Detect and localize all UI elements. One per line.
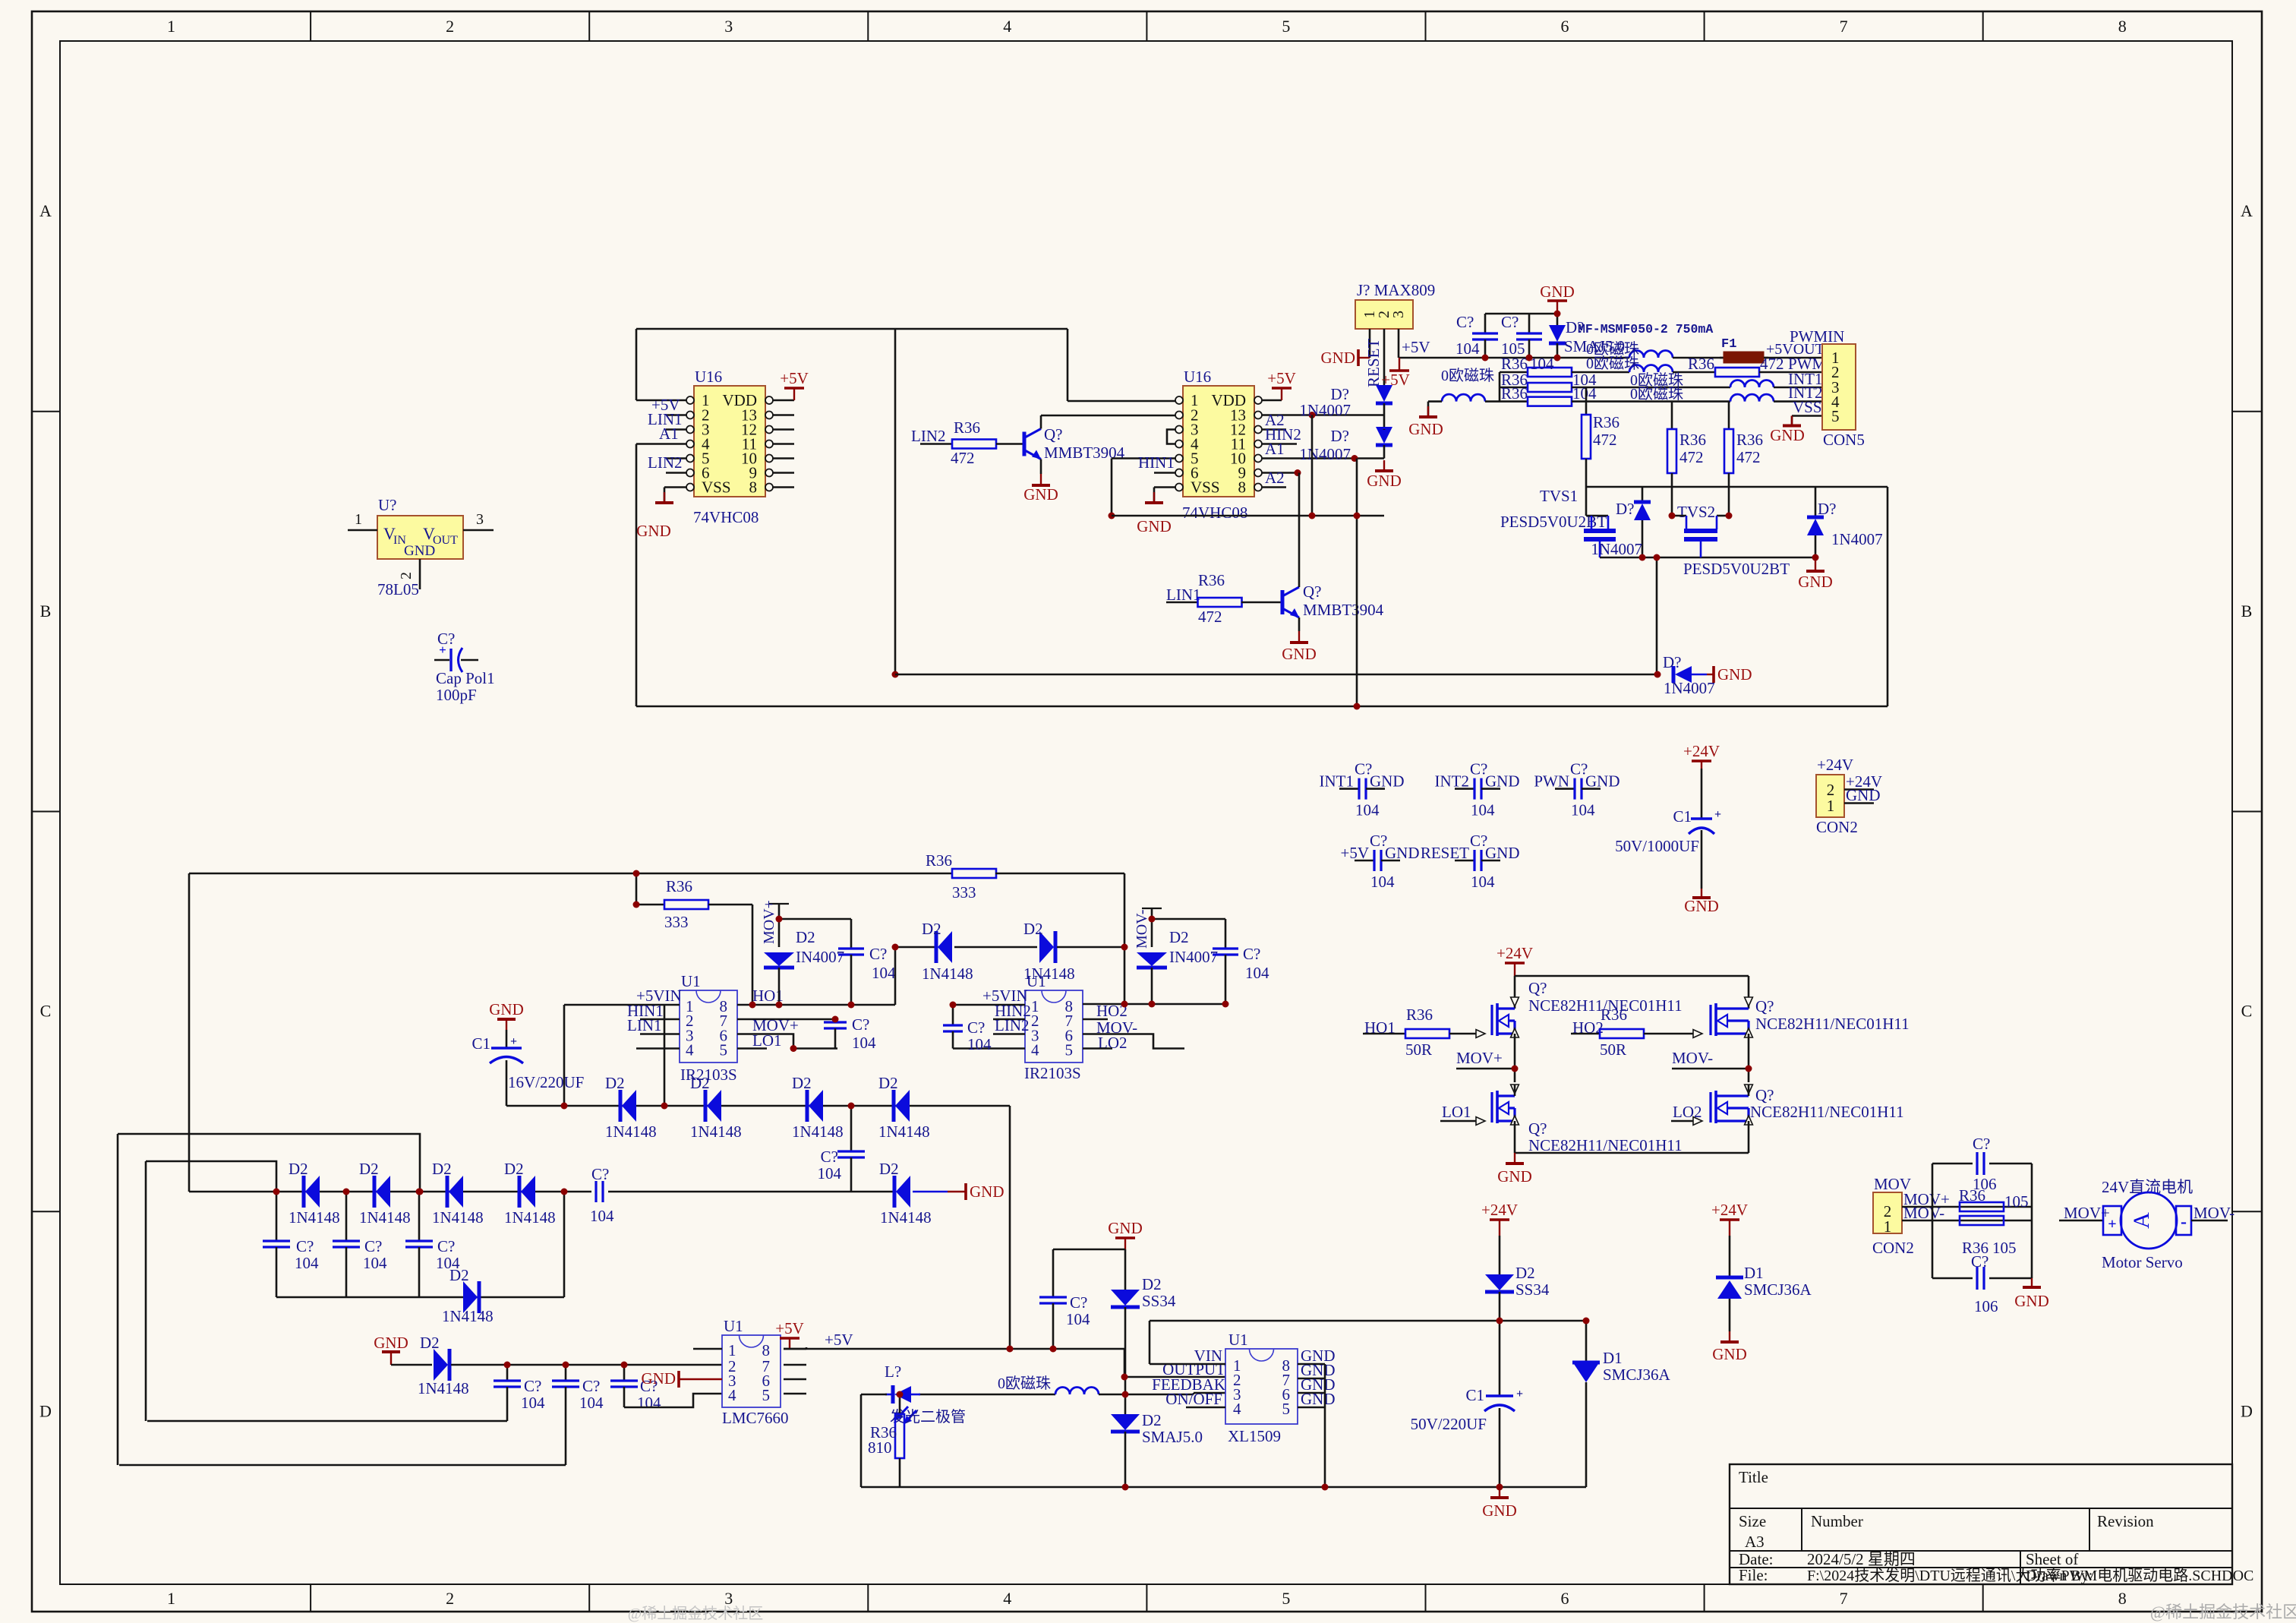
svg-text:SMAJ5.0: SMAJ5.0 (1142, 1428, 1203, 1446)
svg-text:74VHC08: 74VHC08 (693, 508, 758, 526)
wire vertical 875 (pump) (664, 1005, 666, 1106)
power +5V at U16 VDD (772, 399, 794, 402)
cap beta C? 104 below row F (345, 1192, 348, 1241)
svg-text:R36: R36 (1679, 431, 1706, 449)
ferrite bead row INT2 (1730, 394, 1774, 402)
net HIN2 stub pin11 (1261, 443, 1297, 445)
net HIN2 stub (993, 1018, 1025, 1021)
svg-text:RESET: RESET (1421, 844, 1469, 862)
power +24V H-bridge (1514, 963, 1515, 976)
svg-text:1N4007: 1N4007 (1299, 445, 1351, 463)
svg-text:D2: D2 (796, 928, 815, 946)
wire top loop U16-1 (636, 328, 1068, 330)
svg-text:8: 8 (2118, 17, 2127, 36)
svg-text:0欧磁珠: 0欧磁珠 (1586, 355, 1639, 372)
svg-text:5: 5 (1831, 407, 1840, 425)
diode D2 1N4148 row F #5 (893, 1176, 897, 1208)
net LIN1 stub pin3 (640, 1033, 680, 1035)
svg-text:R36: R36 (926, 851, 952, 870)
svg-text:104: 104 (1572, 384, 1597, 403)
svg-text:104: 104 (1571, 801, 1595, 819)
svg-text:A1: A1 (1265, 440, 1285, 458)
IC U1 IR2103S (right) (1025, 990, 1083, 1063)
wire vertical 1481 +5V to OUTPUT (1124, 1349, 1126, 1377)
wire TVS header 641 (1586, 486, 1888, 488)
capacitor C? 104 LMC #1 (506, 1365, 509, 1381)
svg-text:105: 105 (2004, 1192, 2029, 1211)
stub U16 right (772, 457, 794, 459)
svg-text:D2: D2 (449, 1266, 469, 1284)
wire vertical 835 to R36 333 left (635, 873, 638, 905)
wire vertical 155 down (117, 1134, 119, 1465)
wire vertical 1330 rowE to +5V row (1009, 1106, 1011, 1347)
svg-text:1N4148: 1N4148 (359, 1208, 411, 1227)
svg-text:GND: GND (1408, 420, 1443, 438)
svg-text:104: 104 (521, 1394, 545, 1412)
svg-text:78L05: 78L05 (377, 580, 419, 598)
diode D2 SS34 (catch) (1124, 1249, 1127, 1290)
svg-text:106: 106 (1973, 1175, 1997, 1193)
MOSFET Q? NCE82H11/NEC01H11 (top-right) (1748, 976, 1750, 1009)
diode D2 1N4148 row F #1 (302, 1176, 306, 1208)
wire pin7 row (737, 1018, 837, 1021)
svg-text:A3: A3 (1745, 1533, 1765, 1551)
svg-text:1N4148: 1N4148 (289, 1208, 340, 1227)
power +24V (buck input) (1499, 1220, 1500, 1236)
svg-text:VIN: VIN (1194, 1347, 1222, 1365)
svg-text:D2: D2 (359, 1160, 379, 1178)
net LIN2 stub pin6 U16 (666, 472, 687, 474)
wire row G (276, 1296, 564, 1299)
svg-text:1N4148: 1N4148 (880, 1208, 932, 1227)
stub pin5 right (1083, 1047, 1112, 1050)
svg-text:D?: D? (1331, 427, 1350, 445)
svg-text:D2: D2 (1142, 1275, 1162, 1293)
ground below reset diodes (1383, 460, 1385, 471)
net HIN1 stub pin2 (640, 1018, 680, 1021)
wire pin5 U16-2 (1112, 457, 1176, 459)
capacitor C? 104 (bootstrap left) (850, 919, 853, 949)
svg-text:CON2: CON2 (1872, 1239, 1914, 1257)
wire vertical U16-1 right 1179 (894, 329, 897, 674)
svg-text:U1: U1 (681, 972, 701, 990)
svg-text:C?: C? (1070, 1293, 1087, 1312)
svg-text:1: 1 (355, 511, 362, 528)
svg-text:Motor Servo: Motor Servo (2102, 1253, 2183, 1271)
svg-text:Q?: Q? (1755, 1086, 1774, 1104)
svg-text:A1: A1 (659, 425, 679, 443)
wire pin6 step (737, 1034, 837, 1049)
wire row B bottom bus (636, 706, 1888, 708)
svg-text:+24V: +24V (1481, 1201, 1518, 1219)
svg-text:OUT: OUT (433, 534, 458, 547)
svg-text:3: 3 (476, 511, 484, 528)
svg-text:+: + (2108, 1216, 2116, 1233)
svg-text:VSS: VSS (1793, 398, 1822, 416)
wire U16-2 pin1 from top loop (1068, 400, 1176, 403)
net MOV+ row (output) (1902, 1206, 2032, 1208)
diode D? 1N4007 to GND (row A) (1672, 666, 1676, 683)
svg-text:+: + (1714, 808, 1721, 821)
stub U16 right (772, 414, 794, 416)
vertical to bottom row A (1656, 557, 1658, 674)
svg-text:LIN1: LIN1 (1166, 586, 1201, 604)
capacitor C? 105 (5V rail) (1528, 314, 1531, 333)
svg-text:1N4148: 1N4148 (605, 1123, 657, 1141)
power +24V (right TVS) (1729, 1220, 1730, 1236)
diode D1 SMCJ36A (right TVS) (1716, 1276, 1743, 1280)
resistor R36 472 vertical #1 (1585, 387, 1588, 415)
IC U16 74VHC08 (left) (694, 386, 765, 497)
svg-text:5: 5 (720, 1041, 728, 1059)
ground snubber (2031, 1278, 2033, 1287)
wire bridge bottom rail (1515, 1152, 1749, 1154)
diode D2 1N4148 row F #3 (446, 1176, 449, 1208)
svg-text:发光二极管: 发光二极管 (890, 1408, 966, 1426)
IC U1 IR2103S (left) (680, 990, 737, 1063)
power +5V at U16-2 VDD (1261, 399, 1282, 402)
svg-text:3: 3 (1390, 311, 1407, 318)
resistor R36 472 vertical #3 (1728, 402, 1730, 429)
ground Q2 emitter (1298, 631, 1300, 643)
svg-text:5: 5 (1065, 1041, 1074, 1059)
svg-text:Q?: Q? (1528, 1119, 1547, 1138)
power +5V inverted port (1399, 358, 1400, 371)
IC U1 LMC7660 (722, 1335, 781, 1407)
svg-text:GND: GND (642, 1369, 676, 1388)
svg-text:MOV+: MOV+ (761, 900, 777, 944)
svg-text:GND: GND (1770, 426, 1805, 444)
diode D2 1N4148 (row D left) (935, 931, 938, 963)
net MOV+ wire (bridge) (1456, 1068, 1515, 1070)
svg-text:50V/1000UF: 50V/1000UF (1615, 837, 1699, 855)
svg-text:8: 8 (1238, 478, 1247, 497)
stub U16 right (772, 486, 794, 488)
svg-text:R36: R36 (1736, 431, 1763, 449)
svg-text:810: 810 (868, 1438, 892, 1457)
svg-text:104: 104 (1530, 355, 1554, 373)
capacitor C? 104 (bootstrap right) (1225, 919, 1227, 949)
ground VSS U16-2 (1154, 486, 1176, 488)
svg-text:104: 104 (1245, 964, 1269, 982)
svg-text:R36: R36 (1688, 355, 1714, 373)
svg-text:LO2: LO2 (1673, 1103, 1702, 1121)
svg-text:NCE82H11/NEC01H11: NCE82H11/NEC01H11 (1528, 1136, 1683, 1154)
net MOV- row (output) (1902, 1220, 2032, 1222)
svg-text:D2: D2 (879, 1160, 899, 1178)
svg-text:104: 104 (1066, 1310, 1090, 1328)
wire MAX809 pin1 (1369, 329, 1371, 358)
ground under right 1N4007 (1815, 559, 1816, 571)
svg-text:LIN2: LIN2 (648, 453, 683, 472)
svg-text:IN4007: IN4007 (796, 948, 844, 966)
wire vertical left 838 long (635, 444, 638, 707)
svg-text:LIN2: LIN2 (995, 1016, 1030, 1034)
cap gamma C? 104 below row F (418, 1192, 421, 1241)
svg-text:2024/5/2 星期四: 2024/5/2 星期四 (1807, 1550, 1916, 1568)
svg-text:+5V: +5V (1340, 844, 1369, 862)
svg-text:GND: GND (2014, 1292, 2049, 1310)
net LIN1 stub pin3 U16 (666, 428, 687, 431)
svg-text:1N4148: 1N4148 (878, 1123, 930, 1141)
svg-text:GND: GND (1798, 573, 1833, 591)
svg-text:333: 333 (952, 883, 976, 901)
svg-text:R36: R36 (1501, 384, 1528, 403)
svg-text:+5V: +5V (1267, 369, 1296, 387)
svg-text:1N4007: 1N4007 (1664, 679, 1715, 697)
svg-text:LO1: LO1 (752, 1031, 782, 1050)
diode D2 1N4148 feeding LMC (448, 1349, 452, 1381)
resistor R36 104 row INT1 (1500, 387, 1528, 389)
diode D1 SMCJ36A (near C1) (1585, 1321, 1588, 1361)
ferrite bead row PWM (1629, 365, 1673, 373)
svg-text:IR2103S: IR2103S (1024, 1064, 1081, 1082)
svg-text:104: 104 (967, 1035, 992, 1053)
svg-text:1: 1 (167, 17, 175, 36)
svg-text:Number: Number (1811, 1512, 1863, 1530)
MOSFET Q? NCE82H11/NEC01H11 (bottom-right) (1709, 1092, 1711, 1123)
wire corner to diode chain (894, 947, 897, 1005)
diode D? 1N4007 (reset lower) (1376, 444, 1392, 447)
svg-text:+5V: +5V (1402, 338, 1430, 356)
svg-text:3: 3 (724, 17, 733, 36)
svg-text:104: 104 (1471, 873, 1495, 891)
title block (1730, 1464, 2232, 1584)
svg-text:R36: R36 (1601, 1006, 1627, 1024)
svg-text:50R: 50R (1600, 1040, 1626, 1059)
svg-text:SS34: SS34 (1142, 1292, 1176, 1310)
svg-text:472: 472 (1593, 431, 1617, 449)
svg-text:GND: GND (1137, 517, 1172, 535)
svg-text:MOV-: MOV- (2193, 1204, 2234, 1222)
svg-text:+5V: +5V (775, 1319, 804, 1337)
svg-text:INT2: INT2 (1435, 772, 1470, 791)
svg-text:C: C (40, 1002, 52, 1021)
capacitor C? 104 RESET-GND (1455, 860, 1474, 862)
+5V rail to CON5 (1399, 357, 1629, 359)
wire CON2 pin1 GND (1844, 802, 1874, 804)
svg-text:1N4007: 1N4007 (1591, 540, 1642, 558)
svg-text:@稀土掘金技术社区: @稀土掘金技术社区 (628, 1605, 763, 1622)
svg-text:C1: C1 (1465, 1386, 1484, 1404)
svg-text:+24V: +24V (1817, 756, 1853, 774)
diode D? 1N4007 right column (1815, 487, 1817, 517)
wire top rail 1150 (189, 873, 953, 875)
svg-text:105: 105 (1992, 1239, 2017, 1257)
svg-text:F1: F1 (1721, 337, 1736, 352)
IC U16 74VHC08 (right) (1183, 386, 1254, 497)
svg-text:1N4148: 1N4148 (432, 1208, 484, 1227)
transistor Q? MMBT3904 (upper) (1023, 432, 1027, 456)
net A1 wire pin10 (1261, 457, 1384, 459)
IC U1 XL1509 (1225, 1349, 1298, 1424)
svg-text:104: 104 (1355, 801, 1380, 819)
svg-text:GND: GND (1712, 1345, 1747, 1363)
svg-text:C?: C? (591, 1165, 609, 1183)
svg-text:R36: R36 (1406, 1006, 1433, 1024)
resistor R36 104 row INT2 (1500, 400, 1528, 403)
svg-text:D2: D2 (504, 1160, 524, 1178)
svg-text:6: 6 (1561, 1589, 1569, 1608)
wire line 1529 (146, 1161, 276, 1192)
svg-text:GND: GND (1108, 1219, 1143, 1237)
svg-text:PESD5V0U2BT: PESD5V0U2BT (1683, 560, 1790, 578)
svg-text:J? MAX809: J? MAX809 (1357, 281, 1435, 299)
wire left loop xl1509 (861, 1394, 887, 1396)
svg-text:A2: A2 (1265, 469, 1285, 487)
svg-text:C?: C? (821, 1148, 838, 1166)
svg-text:C1: C1 (1673, 807, 1692, 826)
svg-text:D2: D2 (605, 1074, 625, 1092)
svg-text:Q?: Q? (1303, 583, 1322, 601)
diode D2 1N4148 row E #1 (619, 1090, 623, 1122)
svg-text:CON2: CON2 (1816, 818, 1858, 836)
svg-text:U?: U? (378, 496, 397, 514)
svg-text:1N4148: 1N4148 (792, 1123, 844, 1141)
svg-text:4: 4 (1003, 17, 1011, 36)
svg-text:D2: D2 (690, 1074, 710, 1092)
svg-text:104: 104 (579, 1394, 604, 1412)
wire vertical 1406 (1067, 329, 1069, 401)
svg-text:Title: Title (1739, 1468, 1768, 1486)
net +5VIN pin1 wire (564, 1004, 680, 1006)
svg-text:GND: GND (489, 1000, 524, 1018)
svg-text:1N4007: 1N4007 (1299, 401, 1351, 419)
svg-text:Q?: Q? (1044, 425, 1063, 444)
svg-text:MOV-: MOV- (1903, 1204, 1944, 1222)
net FEEDBAK row with bead (919, 1394, 1055, 1396)
diode D? 1N4007 near TVS1 (1642, 487, 1644, 502)
svg-text:74VHC08: 74VHC08 (1182, 504, 1247, 522)
svg-text:472: 472 (1736, 448, 1761, 466)
svg-text:0欧磁珠: 0欧磁珠 (1441, 367, 1494, 384)
stub pin5 (737, 1047, 767, 1050)
svg-text:File:: File: (1739, 1566, 1768, 1584)
capacitor C? 106 top (1973, 1154, 1989, 1174)
capacitor C? 104 (xl gnd) (1052, 1249, 1055, 1297)
svg-text:C1: C1 (471, 1034, 490, 1053)
net A2 stub pin8 (1261, 486, 1286, 488)
svg-text:5: 5 (1282, 1400, 1291, 1418)
svg-text:50R: 50R (1405, 1040, 1432, 1059)
svg-text:104: 104 (590, 1207, 614, 1225)
ground bottom row xl (1499, 1487, 1500, 1498)
svg-text:U1: U1 (1228, 1331, 1248, 1349)
svg-text:+5V: +5V (1381, 371, 1410, 389)
svg-text:104: 104 (637, 1394, 661, 1412)
stub pin5 U16 (666, 457, 687, 459)
XL1509 right GND pins (1298, 1363, 1325, 1366)
svg-text:8: 8 (749, 478, 758, 497)
capacitor C? 104 INT1-GND (1339, 788, 1359, 790)
svg-text:472: 472 (1679, 448, 1704, 466)
svg-text:D2: D2 (432, 1160, 452, 1178)
resistor R36 106 (MOV+) (1960, 1202, 2004, 1211)
wire pin9 row (1261, 472, 1298, 474)
svg-text:333: 333 (664, 913, 689, 931)
wire vertical 1514 to +24 row (1149, 1321, 1151, 1364)
svg-text:HIN1: HIN1 (1138, 453, 1175, 472)
resistor R36 472 vertical #2 (1671, 402, 1673, 429)
svg-text:D: D (2241, 1401, 2253, 1420)
wire row F (189, 1191, 894, 1193)
svg-text:Cap Pol1: Cap Pol1 (436, 669, 495, 687)
svg-text:RESET: RESET (1364, 339, 1383, 387)
transistor Q? MMBT3904 (lower) (1281, 590, 1285, 614)
svg-text:D?: D? (1616, 500, 1635, 518)
wire line 1493 (118, 1134, 420, 1192)
svg-text:+: + (510, 1035, 517, 1048)
wire vertical 1481 (1124, 873, 1126, 1004)
svg-text:TVS2: TVS2 (1677, 503, 1715, 521)
wire VIN row (1150, 1363, 1225, 1366)
wire pin8 row right (737, 1004, 895, 1006)
capacitor C? 104 LMC #3 (623, 1365, 626, 1381)
capacitor C1 50V/1000UF (1701, 761, 1702, 769)
svg-text:5: 5 (762, 1386, 771, 1404)
wire pin4 row (right) (953, 1047, 1025, 1050)
resistor R36 472 row PWM (1715, 368, 1759, 377)
wire collector Q1 to U16 pin2 (1041, 415, 1179, 417)
wire gnd header (1485, 313, 1557, 315)
svg-text:C?: C? (524, 1377, 541, 1395)
wire vertical 192 down (145, 1161, 147, 1421)
wire left junction of R36 rows (1499, 372, 1501, 402)
diode D2 1N4148 row E #4 (892, 1090, 896, 1122)
svg-text:GND: GND (970, 1183, 1004, 1201)
ground at LMC pin3 (677, 1371, 680, 1388)
svg-text:U16: U16 (695, 368, 722, 386)
right bus vertical (1887, 487, 1889, 706)
svg-text:7: 7 (1840, 17, 1848, 36)
wire snubber bottom row (1932, 1277, 2032, 1280)
svg-text:INT1: INT1 (1320, 772, 1355, 791)
capacitor C? 104 on left vertical (right driver) (952, 1005, 954, 1025)
svg-text:+5V: +5V (825, 1331, 853, 1349)
svg-text:LMC7660: LMC7660 (722, 1409, 789, 1427)
svg-text:104: 104 (818, 1164, 842, 1183)
svg-text:CON5: CON5 (1823, 431, 1865, 449)
svg-text:D2: D2 (420, 1334, 440, 1352)
svg-text:D2: D2 (792, 1074, 812, 1092)
svg-text:@稀土掘金技术社区: @稀土掘金技术社区 (2150, 1602, 2296, 1621)
wire pin4 row (636, 1047, 680, 1050)
svg-text:GND: GND (1485, 772, 1520, 791)
stub pin1 LMC (693, 1348, 722, 1350)
regulator U? 78L05 (377, 516, 463, 559)
svg-text:C?: C? (1971, 1252, 1988, 1271)
svg-text:D1: D1 (1744, 1264, 1764, 1282)
ground Q1 emitter (1040, 474, 1042, 485)
diode D2 1N4148 row F #2 (373, 1176, 377, 1208)
wire vertical 1728 (1311, 415, 1314, 516)
svg-text:GND: GND (1321, 349, 1356, 367)
svg-text:TVS1: TVS1 (1540, 487, 1578, 505)
wire cap3 to pin4 (624, 1394, 722, 1407)
svg-text:A: A (2241, 201, 2253, 220)
svg-text:D1: D1 (1603, 1349, 1623, 1367)
wire row E (506, 1105, 1010, 1107)
capacitor C? 104 INT2-GND (1455, 788, 1474, 790)
svg-text:GND: GND (404, 543, 435, 559)
svg-text:R36: R36 (1198, 571, 1225, 589)
ground VSS U16 left (664, 486, 687, 488)
svg-text:Drawn By:: Drawn By: (2026, 1568, 2093, 1584)
wire CON2 pin2 +24V (1844, 788, 1874, 791)
svg-text:D2: D2 (289, 1160, 308, 1178)
svg-text:A: A (2129, 1212, 2154, 1229)
svg-text:D2: D2 (922, 920, 941, 938)
